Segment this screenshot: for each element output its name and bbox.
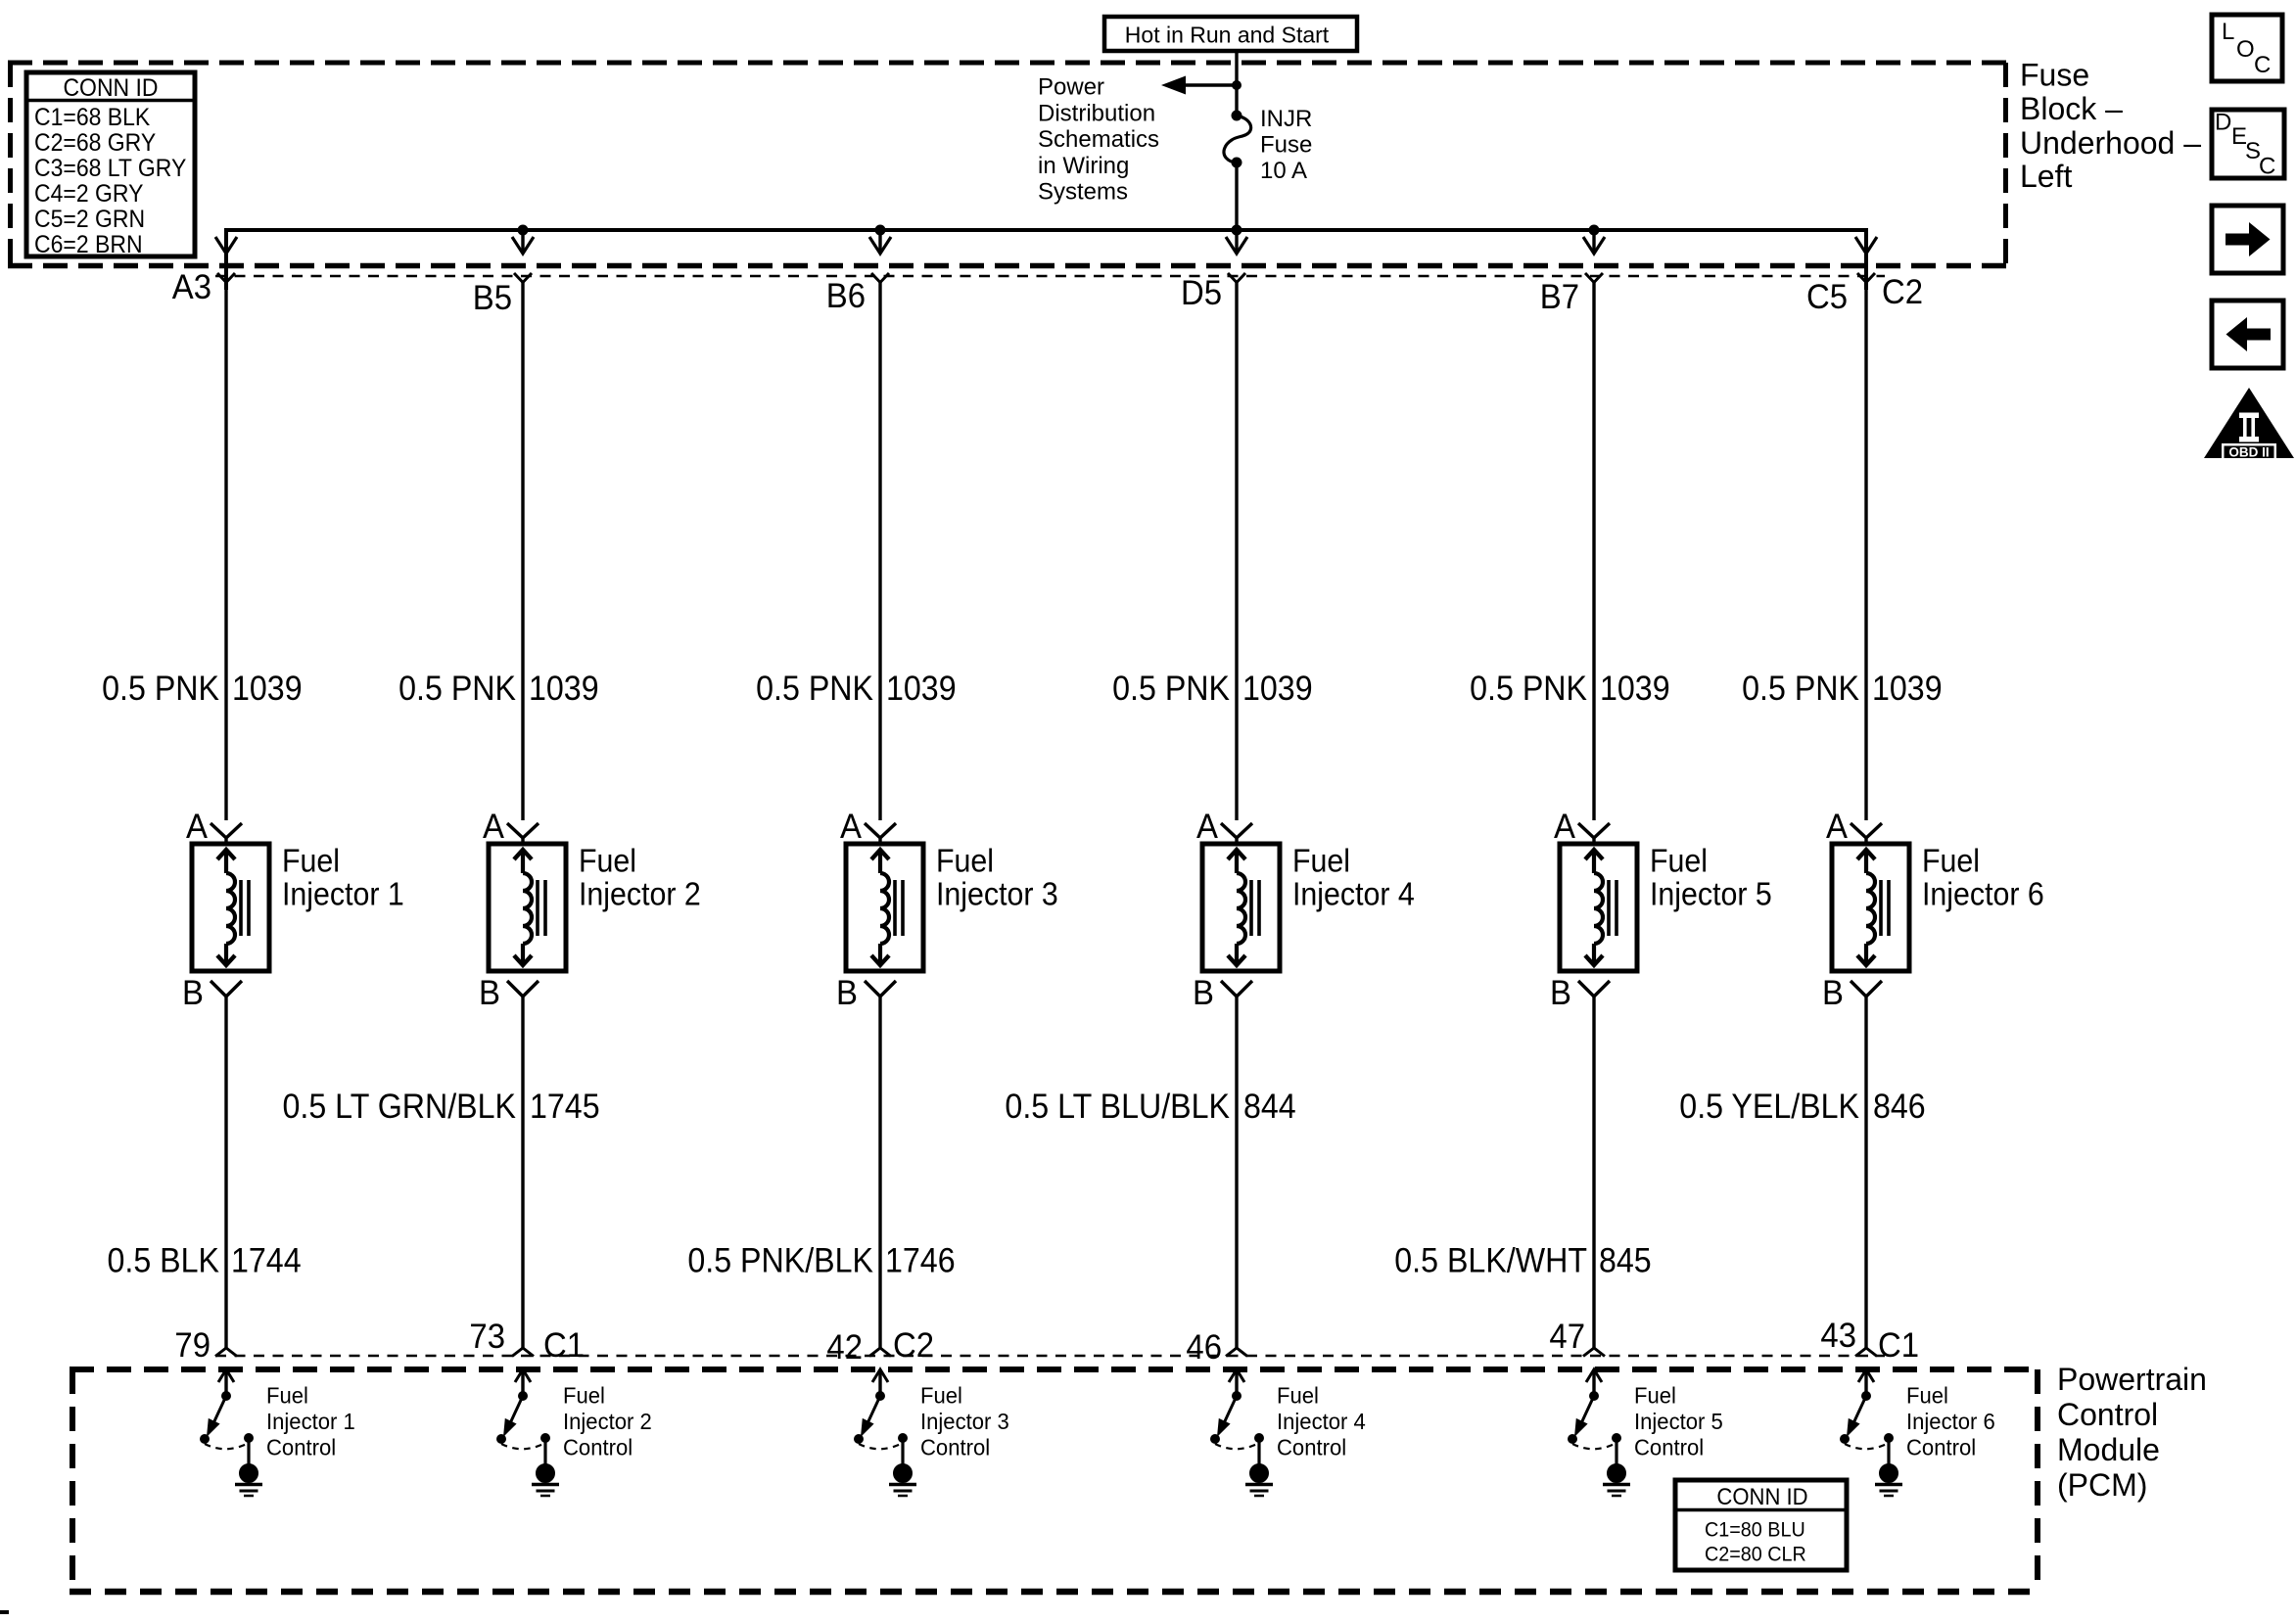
svg-text:Injector 1: Injector 1 [282, 875, 404, 911]
svg-text:1039: 1039 [1600, 671, 1670, 709]
connector Y at injector 3 pin B [865, 981, 896, 996]
connector Y at injector 1 pin B [211, 981, 242, 996]
svg-text:B6: B6 [826, 277, 866, 315]
bus junction dot at B6 [875, 225, 886, 236]
svg-text:C: C [2259, 153, 2275, 179]
fuel injector 1 box [192, 844, 269, 971]
svg-text:Injector 2: Injector 2 [579, 875, 701, 911]
svg-text:C1=80 BLU: C1=80 BLU [1705, 1518, 1805, 1542]
wire label 0.5 PNK 1039 (injector 3) [756, 671, 956, 709]
wire control segment injector 2 [521, 996, 524, 1348]
CONN ID table (fuse block connectors) [26, 72, 195, 258]
svg-text:0.5 PNK: 0.5 PNK [1470, 671, 1587, 709]
connector Y at pin B6 [871, 273, 889, 283]
Hot in Run and Start box [1104, 17, 1357, 51]
wire pnk segment injector 5 [1592, 282, 1595, 820]
bus junction dot at B7 [1589, 225, 1600, 236]
svg-text:Hot in Run and Start: Hot in Run and Start [1125, 23, 1330, 48]
driver switch injector 2 [496, 1391, 550, 1464]
label Fuel Injector 1 Control [266, 1383, 355, 1460]
svg-text:C5=2 GRN: C5=2 GRN [34, 206, 145, 233]
wire control segment injector 6 [1864, 996, 1867, 1348]
svg-text:Underhood –: Underhood – [2020, 125, 2201, 161]
svg-text:C: C [2254, 52, 2271, 78]
svg-text:1039: 1039 [1872, 671, 1943, 709]
svg-text:1039: 1039 [886, 671, 957, 709]
svg-text:C4=2 GRY: C4=2 GRY [34, 180, 143, 208]
svg-text:0.5 PNK/BLK: 0.5 PNK/BLK [687, 1242, 873, 1280]
svg-text:1039: 1039 [232, 671, 303, 709]
svg-text:46: 46 [1186, 1328, 1222, 1367]
svg-text:42: 42 [826, 1328, 863, 1367]
svg-text:C1: C1 [1878, 1326, 1919, 1365]
connector Y at PCM pin 42 [869, 1348, 891, 1357]
svg-text:1744: 1744 [231, 1242, 302, 1280]
svg-text:10 A: 10 A [1260, 158, 1307, 184]
svg-text:73: 73 [469, 1318, 505, 1356]
PCM label Powertrain Control Module (PCM) [2057, 1362, 2207, 1503]
ground symbol injector 6 driver [1875, 1464, 1902, 1497]
connector Y at PCM pin 79 [215, 1348, 237, 1357]
svg-text:B: B [479, 974, 500, 1012]
driver switch injector 4 [1210, 1391, 1264, 1464]
svg-text:A: A [186, 808, 208, 846]
svg-text:(PCM): (PCM) [2057, 1467, 2147, 1503]
svg-text:Fuel: Fuel [282, 842, 340, 878]
svg-text:Injector 6: Injector 6 [1906, 1410, 1995, 1435]
driver switch injector 6 [1840, 1391, 1894, 1464]
wire label 0.5 YEL/BLK 846 [1679, 1089, 1925, 1127]
fuel injector 4 box [1202, 844, 1280, 971]
svg-text:43: 43 [1820, 1317, 1856, 1355]
connector Y at injector 4 pin B [1221, 981, 1252, 996]
svg-text:A: A [1196, 808, 1218, 846]
connector Y at PCM pin 43 [1855, 1348, 1877, 1357]
fuse block underhood dashed box [8, 63, 2008, 266]
svg-text:Injector 5: Injector 5 [1650, 875, 1772, 911]
fuse block connector face line (top) [215, 275, 1885, 278]
OBD II icon [2204, 388, 2294, 461]
wire fuse to bus [1235, 162, 1238, 230]
svg-text:C5: C5 [1806, 278, 1848, 316]
svg-text:Injector 3: Injector 3 [936, 875, 1058, 911]
label Fuel Injector 3 Control [920, 1383, 1009, 1460]
svg-text:Fuse: Fuse [2020, 58, 2089, 93]
svg-text:79: 79 [174, 1326, 211, 1365]
svg-text:in Wiring: in Wiring [1038, 153, 1129, 179]
svg-text:Injector 2: Injector 2 [563, 1410, 652, 1435]
bus junction dot at D5 [1232, 225, 1242, 236]
svg-text:0.5 PNK: 0.5 PNK [756, 671, 873, 709]
fuse block exit arrow at pin B5 [512, 230, 534, 254]
connector Y at injector 5 pin B [1578, 981, 1610, 996]
fuel injector 3 coil symbol [871, 850, 903, 965]
LOC icon [2212, 15, 2282, 81]
svg-text:Control: Control [1634, 1435, 1704, 1460]
svg-text:A: A [1826, 808, 1848, 846]
svg-text:Power: Power [1038, 74, 1104, 101]
driver switch injector 1 [200, 1391, 254, 1464]
wire pnk segment injector 6 [1864, 282, 1867, 820]
label Fuel Injector 4 Control [1277, 1383, 1366, 1460]
svg-text:C2=80 CLR: C2=80 CLR [1705, 1543, 1806, 1566]
svg-text:A: A [483, 808, 504, 846]
fuel injector 1 label [282, 842, 404, 911]
fuse block exit arrow at pin B7 [1583, 230, 1605, 254]
wire control segment injector 4 [1235, 996, 1238, 1348]
fuse label INJR Fuse 10 A [1260, 106, 1312, 184]
svg-text:846: 846 [1873, 1089, 1926, 1127]
connector Y at PCM pin 46 [1226, 1348, 1247, 1357]
connector Y at injector 2 pin B [507, 981, 539, 996]
svg-text:0.5 LT GRN/BLK: 0.5 LT GRN/BLK [283, 1089, 517, 1127]
scan mark bottom left corner [0, 1610, 9, 1614]
fuel injector 6 coil symbol [1857, 850, 1889, 965]
svg-text:B: B [1193, 974, 1214, 1012]
wire pnk segment injector 4 [1235, 282, 1238, 820]
connector Y at injector 1 pin A [211, 823, 242, 844]
svg-text:INJR: INJR [1260, 106, 1312, 132]
PCM connector face line (bottom) [215, 1355, 1885, 1358]
wire pnk segment injector 1 [224, 282, 227, 820]
wire label 0.5 LT BLU/BLK 844 [1005, 1089, 1295, 1127]
svg-text:Fuel: Fuel [920, 1383, 962, 1409]
label Fuel Injector 6 Control [1906, 1383, 1995, 1460]
svg-text:L: L [2222, 19, 2234, 45]
fuel injector 3 label [936, 842, 1058, 911]
svg-text:0.5 YEL/BLK: 0.5 YEL/BLK [1679, 1089, 1859, 1127]
svg-text:C2: C2 [893, 1326, 934, 1365]
ground symbol injector 2 driver [532, 1464, 559, 1497]
ground symbol injector 4 driver [1245, 1464, 1273, 1497]
wire label 0.5 PNK 1039 (injector 1) [102, 671, 302, 709]
svg-text:Module: Module [2057, 1432, 2160, 1467]
svg-text:OBD II: OBD II [2228, 445, 2269, 460]
fuel injector 4 coil symbol [1228, 850, 1259, 965]
svg-text:Fuel: Fuel [1634, 1383, 1676, 1409]
fuel injector 1 coil symbol [217, 850, 249, 965]
svg-text:0.5 LT BLU/BLK: 0.5 LT BLU/BLK [1005, 1089, 1230, 1127]
PCM input arrow pin 43 [1858, 1369, 1874, 1396]
svg-text:B: B [1550, 974, 1571, 1012]
fuse block exit arrow at pin A3 [215, 230, 237, 254]
driver switch injector 5 [1568, 1391, 1621, 1464]
fuse block exit arrow at pin C5 [1855, 230, 1877, 254]
fuel injector 3 box [846, 844, 923, 971]
connector Y at injector 5 pin A [1578, 823, 1610, 844]
svg-text:0.5 BLK/WHT: 0.5 BLK/WHT [1394, 1242, 1587, 1280]
svg-text:47: 47 [1549, 1318, 1585, 1356]
svg-text:1746: 1746 [885, 1242, 956, 1280]
driver switch injector 3 [854, 1391, 908, 1464]
wire label 0.5 LT GRN/BLK 1745 [283, 1089, 600, 1127]
fuel injector 2 label [579, 842, 701, 911]
svg-text:A: A [1554, 808, 1575, 846]
svg-text:Left: Left [2020, 159, 2072, 194]
svg-text:Fuel: Fuel [1906, 1383, 1948, 1409]
CONN ID table (PCM connectors) [1675, 1480, 1847, 1570]
svg-text:Fuel: Fuel [266, 1383, 308, 1409]
wire label 0.5 PNK 1039 (injector 5) [1470, 671, 1669, 709]
svg-text:Fuse: Fuse [1260, 132, 1312, 159]
wire label 0.5 BLK 1744 [107, 1242, 301, 1280]
svg-text:0.5 PNK: 0.5 PNK [102, 671, 219, 709]
svg-text:0.5 PNK: 0.5 PNK [1742, 671, 1859, 709]
wire label 0.5 PNK/BLK 1746 [687, 1242, 955, 1280]
svg-text:A: A [840, 808, 862, 846]
svg-text:Injector 1: Injector 1 [266, 1410, 355, 1435]
svg-text:Fuel: Fuel [1292, 842, 1350, 878]
power bus wire [226, 230, 1866, 290]
DESC icon [2212, 110, 2284, 180]
connector Y at pin B7 [1585, 273, 1603, 283]
fuse block exit arrow at pin B6 [869, 230, 891, 254]
power distribution schematics note [1038, 74, 1159, 206]
powertrain control module dashed box [70, 1369, 2040, 1592]
ground symbol injector 1 driver [235, 1464, 262, 1497]
connector Y at injector 6 pin B [1851, 981, 1882, 996]
fuel injector 6 box [1832, 844, 1909, 971]
svg-text:B5: B5 [473, 279, 512, 317]
svg-text:D5: D5 [1181, 274, 1222, 312]
PCM input arrow pin 47 [1586, 1369, 1602, 1396]
svg-text:Injector 4: Injector 4 [1277, 1410, 1366, 1435]
svg-text:Injector 6: Injector 6 [1922, 875, 2044, 911]
svg-text:0.5 PNK: 0.5 PNK [1112, 671, 1230, 709]
svg-text:Control: Control [920, 1435, 990, 1460]
connector Y at pin A3 [217, 273, 235, 283]
svg-text:Control: Control [563, 1435, 633, 1460]
PCM input arrow pin 73 [515, 1369, 531, 1396]
fuel injector 5 label [1650, 842, 1772, 911]
svg-text:0.5 PNK: 0.5 PNK [398, 671, 516, 709]
svg-text:Fuel: Fuel [1277, 1383, 1319, 1409]
fuel injector 6 label [1922, 842, 2044, 911]
connector Y at PCM pin 73 [512, 1348, 534, 1357]
svg-text:B7: B7 [1540, 278, 1579, 316]
svg-text:Block –: Block – [2020, 91, 2123, 126]
svg-text:Powertrain: Powertrain [2057, 1362, 2207, 1397]
svg-text:B: B [1822, 974, 1844, 1012]
connector Y at injector 4 pin A [1221, 823, 1252, 844]
svg-text:C1: C1 [543, 1326, 585, 1365]
svg-text:Fuel: Fuel [936, 842, 994, 878]
back arrow icon [2212, 301, 2283, 368]
svg-text:B: B [182, 974, 204, 1012]
svg-text:C1=68 BLK: C1=68 BLK [34, 104, 150, 131]
connector Y at pin B5 [514, 273, 532, 283]
connector Y at pin D5 [1228, 273, 1245, 283]
fuse F INJR 10A symbol [1224, 111, 1251, 168]
wire label 0.5 PNK 1039 (injector 4) [1112, 671, 1312, 709]
fuel injector 2 coil symbol [514, 850, 545, 965]
svg-text:0.5 BLK: 0.5 BLK [107, 1242, 219, 1280]
arrow to power distribution schematics [1161, 76, 1242, 95]
wire label 0.5 PNK 1039 (injector 6) [1742, 671, 1942, 709]
fuel injector 4 label [1292, 842, 1415, 911]
svg-text:Control: Control [1906, 1435, 1976, 1460]
ground symbol injector 5 driver [1603, 1464, 1630, 1497]
forward arrow icon [2212, 206, 2283, 273]
connector Y at injector 3 pin A [865, 823, 896, 844]
svg-text:C3=68 LT GRY: C3=68 LT GRY [34, 155, 186, 182]
svg-text:A3: A3 [172, 268, 211, 306]
connector Y at injector 2 pin A [507, 823, 539, 844]
PCM input arrow pin 42 [872, 1369, 888, 1396]
svg-text:Systems: Systems [1038, 179, 1128, 206]
wire label 0.5 BLK/WHT 845 [1394, 1242, 1651, 1280]
wire pnk segment injector 2 [521, 282, 524, 820]
svg-text:Fuel: Fuel [1650, 842, 1708, 878]
svg-text:Fuel: Fuel [563, 1383, 605, 1409]
svg-text:Injector 3: Injector 3 [920, 1410, 1009, 1435]
fuel injector 5 coil symbol [1585, 850, 1617, 965]
svg-text:B: B [836, 974, 858, 1012]
wire pnk segment injector 3 [878, 282, 881, 820]
svg-text:Control: Control [2057, 1397, 2158, 1432]
wire control segment injector 3 [878, 996, 881, 1348]
svg-text:CONN ID: CONN ID [63, 74, 158, 102]
connector Y at pin C5 [1857, 273, 1875, 283]
svg-text:1745: 1745 [530, 1089, 600, 1127]
ground symbol injector 3 driver [889, 1464, 916, 1497]
wire hot box to fuse [1235, 51, 1238, 116]
connector Y at injector 6 pin A [1851, 823, 1882, 844]
svg-text:1039: 1039 [529, 671, 599, 709]
svg-text:Control: Control [266, 1435, 336, 1460]
wire label 0.5 PNK 1039 (injector 2) [398, 671, 598, 709]
svg-text:C2=68 GRY: C2=68 GRY [34, 129, 156, 157]
svg-text:C6=2 BRN: C6=2 BRN [34, 231, 143, 258]
svg-text:Injector 5: Injector 5 [1634, 1410, 1723, 1435]
svg-text:Schematics: Schematics [1038, 126, 1159, 153]
svg-text:CONN ID: CONN ID [1716, 1483, 1807, 1509]
svg-text:845: 845 [1599, 1242, 1652, 1280]
connector Y at PCM pin 47 [1583, 1348, 1605, 1357]
svg-text:D: D [2215, 110, 2231, 136]
fuse block exit arrow at pin D5 [1226, 230, 1247, 254]
label Fuel Injector 5 Control [1634, 1383, 1723, 1460]
fuse block label Fuse Block - Underhood - Left [2020, 58, 2201, 194]
svg-text:Control: Control [1277, 1435, 1346, 1460]
fuel injector 5 box [1560, 844, 1637, 971]
svg-text:Distribution: Distribution [1038, 100, 1155, 126]
wire control segment injector 1 [224, 996, 227, 1348]
svg-text:Fuel: Fuel [579, 842, 636, 878]
PCM input arrow pin 46 [1229, 1369, 1244, 1396]
label Fuel Injector 2 Control [563, 1383, 652, 1460]
svg-text:Injector 4: Injector 4 [1292, 875, 1415, 911]
PCM input arrow pin 79 [218, 1369, 234, 1396]
svg-text:844: 844 [1243, 1089, 1296, 1127]
svg-text:C2: C2 [1882, 273, 1923, 311]
svg-text:Fuel: Fuel [1922, 842, 1980, 878]
fuel injector 2 box [489, 844, 566, 971]
wire control segment injector 5 [1592, 996, 1595, 1348]
svg-text:O: O [2236, 36, 2255, 63]
svg-text:1039: 1039 [1242, 671, 1313, 709]
bus junction dot at B5 [518, 225, 529, 236]
